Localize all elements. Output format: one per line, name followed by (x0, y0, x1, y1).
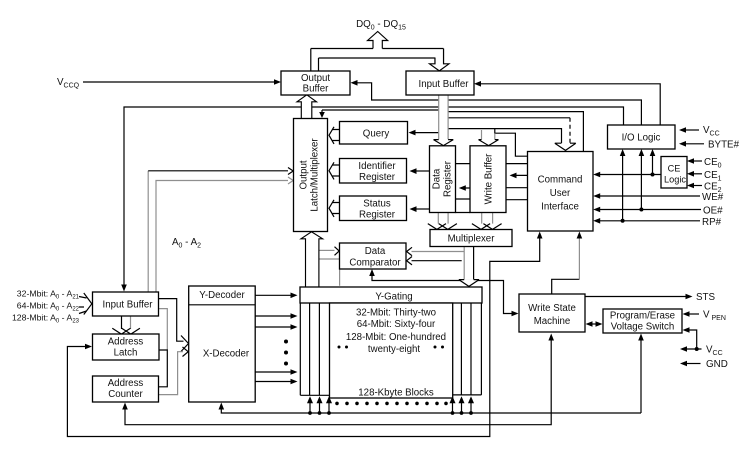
text Identifier Register (358, 161, 396, 183)
block Address Counter (93, 376, 159, 402)
wire WE# (593, 193, 700, 199)
svg-text:128-Kbyte Blocks: 128-Kbyte Blocks (358, 388, 434, 399)
svg-text:STS: STS (696, 292, 716, 303)
wire STS output (585, 294, 693, 300)
label CE2 (704, 182, 722, 195)
wire GND (680, 361, 701, 367)
wire X-Decoder word lines (255, 313, 297, 384)
text I/O Logic (622, 133, 661, 144)
svg-text:Write State: Write State (528, 303, 576, 314)
text Command User Interface (538, 175, 583, 213)
block Write State Machine (519, 294, 585, 332)
hollow arrow DQ bus up (368, 32, 388, 49)
dots beside twenty-eight (338, 346, 445, 349)
wire Address Counter to X-Decoder (gray) (159, 347, 189, 395)
svg-text:A0 - A2: A0 - A2 (172, 237, 201, 250)
svg-text:64-Mbit: Sixty-four: 64-Mbit: Sixty-four (357, 319, 436, 330)
label 64-Mbit address range (17, 301, 80, 313)
bitline strips right (453, 303, 482, 395)
wire address feedback rails to OLM (148, 168, 293, 293)
wire Query feed from data bus (409, 130, 439, 136)
text Address Latch (108, 337, 144, 359)
text Y-Decoder (199, 290, 245, 301)
svg-text:Input Buffer: Input Buffer (103, 300, 154, 311)
wire CE logic out to CUI and I/O Logic (593, 149, 661, 177)
svg-text:Y-Decoder: Y-Decoder (199, 290, 245, 301)
wire OE from I/O Logic to Output Buffer (351, 80, 642, 125)
wire DQ bus line 1 (311, 49, 444, 72)
svg-text:Data: Data (432, 168, 443, 189)
wire data bus branch to CUI arrow (448, 129, 561, 143)
svg-text:Command: Command (538, 175, 583, 186)
wire VCCQ to Output Buffer (83, 79, 281, 85)
text 128-Kbyte Blocks (358, 388, 434, 399)
wire WB-CUI lines (506, 164, 528, 200)
svg-text:Register: Register (443, 160, 454, 197)
text Write State Machine (528, 303, 576, 327)
wire Input Buffer top to Address Latch (122, 316, 131, 329)
block Y-Decoder / X-Decoder (189, 286, 256, 402)
svg-text:Register: Register (359, 172, 396, 183)
wire array ground arrows left (307, 396, 332, 415)
svg-text:Comparator: Comparator (349, 258, 401, 269)
wire Data Register to Identifier Register (410, 168, 430, 174)
label VCCQ (57, 77, 80, 90)
hollow shaft Input Buffer data bus down (434, 96, 454, 146)
wire OE# (593, 149, 701, 212)
svg-text:Program/Erase: Program/Erase (610, 311, 675, 322)
block Input Buffer (address) (93, 292, 159, 316)
hollow arrow into CUI top (555, 143, 576, 150)
wire CE2 (687, 183, 702, 189)
block Program/Erase Voltage Switch (603, 309, 682, 333)
wire CE0 (687, 158, 702, 164)
text Output Buffer (301, 73, 330, 95)
svg-text:Machine: Machine (534, 316, 571, 327)
label VCC bottom (706, 345, 723, 358)
wire VCC into I/O Logic (679, 127, 699, 133)
block Output Latch/Multiplexer (294, 119, 328, 232)
svg-text:Register: Register (359, 210, 396, 221)
wire OLM to Status Register bus (329, 200, 340, 217)
label CE1 (704, 170, 722, 183)
svg-text:Buffer: Buffer (303, 84, 329, 95)
svg-text:OE#: OE# (703, 206, 723, 217)
wire OLM to Query bus (329, 127, 340, 144)
svg-text:WE#: WE# (702, 192, 724, 203)
wire data bus jog into CUI left edge (495, 129, 528, 157)
svg-text:Output: Output (301, 73, 330, 84)
label GND (706, 359, 728, 370)
svg-text:User: User (550, 188, 571, 199)
text Multiplexer (448, 234, 496, 245)
hollow arrow into Write Buffer top (479, 140, 499, 146)
block Input Buffer (data) (406, 71, 474, 95)
svg-text:I/O Logic: I/O Logic (622, 133, 661, 144)
svg-text:Latch: Latch (114, 348, 138, 359)
block Output Buffer (281, 71, 350, 95)
text array sizes (346, 308, 446, 356)
text Y-Gating (375, 292, 412, 303)
wire Data Register to Status Register (410, 206, 430, 212)
wire gray OLM shaft to Data Comparator left (319, 247, 339, 256)
label CE0 (704, 157, 722, 170)
label WE# (702, 192, 724, 203)
block Y-Gating (300, 287, 482, 303)
label STS (696, 292, 716, 303)
svg-text:Latch/Multiplexer: Latch/Multiplexer (310, 138, 321, 212)
text Address Counter (108, 378, 144, 400)
label 128-Mbit address range (12, 313, 80, 325)
text Program/Erase Voltage Switch (610, 311, 675, 333)
svg-text:GND: GND (706, 359, 728, 370)
svg-text:128-Mbit: One-hundred: 128-Mbit: One-hundred (346, 332, 446, 343)
svg-text:Address: Address (108, 378, 144, 389)
wire gray OLM shaft down to Y-Gating (319, 259, 340, 286)
hollow arrow shaft into Output Buffer bottom (297, 95, 317, 119)
block I/O Logic (608, 125, 676, 149)
wire I/O Logic to Input Buffer control (474, 81, 660, 125)
wire DQ bus line 2 (319, 58, 436, 71)
hollow chevron into Input Buffer addr left (84, 293, 92, 315)
wire RP# (593, 149, 700, 224)
wire VCC bottom with branch into PE switch (680, 327, 702, 352)
label VPEN (703, 310, 726, 323)
label 32-Mbit address range (17, 289, 80, 301)
svg-text:twenty-eight: twenty-eight (368, 344, 421, 355)
wire WSM-PE bidirectional (586, 321, 603, 327)
wire OLM to Identifier Register bus (329, 162, 340, 179)
label RP# (702, 217, 722, 228)
hollow shaft Multiplexer to Y-Gating (459, 247, 479, 287)
svg-text:Counter: Counter (108, 389, 143, 400)
block Address Latch (93, 334, 160, 360)
svg-text:X-Decoder: X-Decoder (203, 349, 250, 360)
wire VPEN into PE switch (683, 311, 700, 317)
wire CUI bottom to feedback rail and Address Latch (67, 232, 542, 437)
bitline strips left (300, 303, 329, 395)
block memory array (330, 303, 453, 398)
svg-text:Data: Data (365, 246, 386, 257)
wire DR-WB lines (456, 164, 471, 213)
wire CE1 (687, 171, 702, 177)
hollow arrows Data Register to Multiplexer (428, 213, 457, 230)
svg-text:Multiplexer: Multiplexer (448, 234, 496, 245)
svg-text:Status: Status (363, 199, 391, 210)
svg-text:Query: Query (363, 129, 390, 140)
block Data Comparator (340, 243, 407, 269)
label VCC right (703, 125, 720, 138)
text Query (363, 129, 390, 140)
wire Input Buffer(addr) to X-Decoder (159, 299, 189, 352)
wire mux shaft to Data Comparator right lower (407, 257, 462, 265)
wire P: I/O Logic to address Input Buffer (121, 107, 623, 292)
label BYTE# (708, 140, 740, 151)
text Write Buffer (484, 153, 495, 205)
wire BYTE# into I/O Logic (679, 141, 704, 147)
block Query (340, 122, 408, 145)
block Identifier Register (340, 159, 407, 184)
text X-Decoder (203, 349, 250, 360)
wire F2 feedback: WSM to Address Counter (122, 334, 554, 425)
wire dashed branch to CUI arrow (448, 118, 570, 143)
wire array ground arrows right (450, 396, 475, 415)
text Input Buffer (419, 79, 470, 90)
label OE# (703, 206, 723, 217)
svg-text:Identifier: Identifier (358, 161, 396, 172)
wire IB(addr)-AL-AC chain rail (159, 309, 168, 387)
svg-text:Interface: Interface (541, 202, 579, 213)
wire F1 feedback: PE switch to X-Decoder and array (219, 334, 644, 414)
svg-text:RP#: RP# (702, 217, 722, 228)
wire WSM top to CUI bottom (552, 232, 583, 295)
text Input Buffer addr (103, 300, 154, 311)
block Status Register (340, 196, 407, 221)
hollow arrow into Input Buffer top (430, 49, 450, 71)
svg-text:Logic: Logic (664, 175, 686, 185)
hollow arrows Input Buffer to Address Latch (112, 328, 140, 334)
wire address feedback rail 2 to OLM (gray) (156, 177, 293, 292)
hollow arrows Write Buffer to Multiplexer (472, 213, 502, 230)
block Write Buffer (470, 146, 506, 213)
text Output Latch/Multiplexer (299, 138, 321, 212)
label DQ0-DQ15 (356, 19, 406, 32)
block Command User Interface (528, 152, 594, 232)
svg-text:BYTE#: BYTE# (708, 140, 740, 151)
dots row under array (335, 402, 448, 406)
svg-text:Output: Output (299, 160, 310, 189)
block Multiplexer (430, 230, 512, 247)
label A0 - A2 (172, 237, 201, 250)
svg-text:Input Buffer: Input Buffer (419, 79, 470, 90)
text CE Logic (664, 164, 686, 185)
wire address label pointers (79, 297, 87, 314)
block CE Logic (661, 157, 687, 189)
svg-text:Address: Address (108, 337, 144, 348)
wire Data Comparator to Write State Machine (369, 269, 518, 316)
wire gray mux shaft to Data Comparator right (407, 247, 464, 255)
block Data Register (430, 146, 456, 213)
svg-text:32-Mbit: Thirty-two: 32-Mbit: Thirty-two (356, 308, 436, 319)
hollow arrow shaft Y-Gating to OLM bottom (301, 232, 323, 287)
svg-text:CE: CE (668, 164, 681, 174)
wire L2: to CUI top (448, 112, 583, 152)
text Status Register (359, 199, 396, 221)
svg-text:Voltage Switch: Voltage Switch (611, 322, 675, 333)
wire WB arrow shaft feeds (482, 130, 495, 140)
svg-text:Write Buffer: Write Buffer (484, 153, 495, 205)
svg-text:Y-Gating: Y-Gating (375, 292, 412, 303)
wire Y-Decoder to Y-Gating (255, 293, 297, 299)
text Data Comparator (349, 246, 401, 269)
wire Q: OLM top enable (319, 110, 439, 118)
text Data Register (432, 160, 454, 197)
